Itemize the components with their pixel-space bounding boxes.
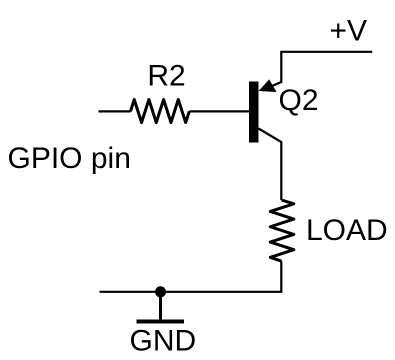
svg-text:R2: R2	[147, 60, 185, 93]
svg-text:Q2: Q2	[279, 84, 319, 117]
svg-text:GND: GND	[130, 324, 197, 357]
svg-text:GPIO pin: GPIO pin	[8, 142, 131, 175]
svg-text:LOAD: LOAD	[306, 214, 388, 247]
svg-text:+V: +V	[330, 15, 368, 48]
